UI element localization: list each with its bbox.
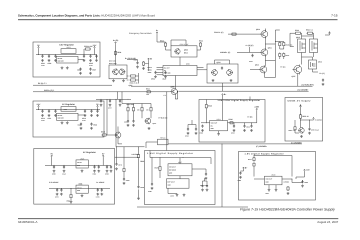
resistor R510 xyxy=(130,79,137,81)
capacitor C516 xyxy=(90,123,92,126)
junction J3 xyxy=(48,53,51,56)
svg-text:U503: U503 xyxy=(66,46,70,49)
junction J2 xyxy=(41,53,44,56)
capacitor C514 xyxy=(90,110,92,113)
svg-text:EP501 600: EP501 600 xyxy=(84,45,92,48)
wire B6 main xyxy=(201,100,257,123)
wire UNSWB+ lower rail xyxy=(168,143,302,145)
svg-text:R540: R540 xyxy=(295,29,299,32)
svg-text:C516: C516 xyxy=(93,123,97,126)
wire 9.3V feed vertical xyxy=(116,99,145,147)
regulator U510 box xyxy=(309,60,317,69)
ground R562 xyxy=(70,201,73,204)
resistor R513 xyxy=(164,42,166,47)
wire B4 links xyxy=(160,158,206,179)
svg-text:.01uF: .01uF xyxy=(62,173,66,176)
svg-text:UNSWB+ (C): UNSWB+ (C) xyxy=(220,51,231,54)
ground C520 xyxy=(136,65,139,68)
ground U506 xyxy=(81,194,84,197)
svg-text:C580: C580 xyxy=(148,190,152,193)
block 3.3V regulator xyxy=(33,42,100,77)
ground C550 xyxy=(308,132,311,135)
svg-text:R519: R519 xyxy=(101,130,105,133)
wire B3 row2 stub xyxy=(70,188,72,200)
junction J30 xyxy=(176,90,179,93)
capacitor C504 xyxy=(83,55,85,58)
wire B7 feed xyxy=(300,105,302,115)
svg-text:C542: C542 xyxy=(231,132,235,135)
capacitor C569 xyxy=(123,178,125,181)
block 1.8V digital supply regulator xyxy=(239,152,316,201)
junction J13 xyxy=(90,108,93,111)
svg-text:5V: 5V xyxy=(102,152,105,155)
svg-text:R513: R513 xyxy=(160,39,164,42)
ground Q501a xyxy=(112,79,115,82)
ground C586 xyxy=(301,184,304,187)
junction J25 xyxy=(96,187,99,190)
wire T1 base feed xyxy=(228,33,261,35)
svg-text:C510: C510 xyxy=(41,117,45,120)
ground C505 xyxy=(89,59,92,62)
capacitor C583 xyxy=(206,184,208,187)
svg-text:C585: C585 xyxy=(238,179,242,182)
svg-text:C503: C503 xyxy=(151,78,155,81)
svg-text:R575: R575 xyxy=(248,158,252,161)
thermistor RT500 box xyxy=(158,139,169,145)
transistor Q520 xyxy=(298,127,304,133)
capacitor C550 xyxy=(308,127,310,130)
header rule xyxy=(18,18,338,21)
comparator U500 body xyxy=(163,66,197,76)
transistor Q500 inside U501 box xyxy=(174,48,180,54)
resistor R537 xyxy=(279,53,281,58)
transistor Q507 xyxy=(144,118,150,125)
junction J32 xyxy=(109,98,112,101)
svg-text:August 24, 2007: August 24, 2007 xyxy=(317,220,338,224)
svg-text:3.3V: 3.3V xyxy=(93,44,97,47)
reference U506 xyxy=(76,185,88,193)
junction J15 xyxy=(50,164,53,167)
wire right collector bus xyxy=(275,30,283,78)
svg-text:VCC GND: VCC GND xyxy=(164,73,170,75)
resistor R546 xyxy=(229,122,234,124)
footer rule xyxy=(18,217,338,220)
junction J35 xyxy=(127,98,130,101)
svg-text:5V UNSW: 5V UNSW xyxy=(315,118,322,121)
ground C525 xyxy=(127,124,130,127)
comparator pair box Q501 xyxy=(109,65,127,79)
svg-text:C550 0.1uF: C550 0.1uF xyxy=(311,129,319,132)
regulator U503 body xyxy=(57,56,79,63)
junction J9 xyxy=(41,108,44,111)
junction J11 xyxy=(54,108,57,111)
junction J46 xyxy=(264,43,267,46)
ground Q514b xyxy=(230,79,233,82)
svg-text:C570: C570 xyxy=(55,196,59,199)
junction J49 xyxy=(299,119,302,122)
svg-text:(C) UNSWB+: (C) UNSWB+ xyxy=(256,145,267,148)
gate U501 box xyxy=(171,46,197,57)
svg-text:C502: C502 xyxy=(48,62,52,65)
capacitor C531 xyxy=(251,54,253,57)
wire sense drop xyxy=(148,60,150,71)
svg-text:IN OUT: IN OUT xyxy=(58,115,63,117)
svg-text:GND ADJ: GND ADJ xyxy=(58,60,64,62)
wire T3 base feed xyxy=(250,69,260,71)
junction J14 xyxy=(96,108,99,111)
capacitor C507 xyxy=(89,68,91,71)
wire R513 R514 stubs xyxy=(166,47,201,50)
capacitor C528 xyxy=(119,99,121,102)
ground C540 xyxy=(201,129,204,132)
wire B4 top bus xyxy=(150,151,211,165)
svg-text:6816552H01-A: 6816552H01-A xyxy=(18,220,38,224)
capacitor C576 xyxy=(115,163,117,166)
junction J39 xyxy=(205,121,208,124)
junction J24 xyxy=(70,187,73,190)
svg-text:47K: 47K xyxy=(137,110,140,112)
ground C560 xyxy=(53,170,56,173)
svg-text:E7 BLK 600: E7 BLK 600 xyxy=(159,117,168,120)
transistor Q511 xyxy=(260,48,268,56)
svg-text:C525: C525 xyxy=(124,121,128,123)
resistor R570 xyxy=(159,166,161,172)
wire bottom ground rail xyxy=(137,206,248,208)
resistor R576 xyxy=(253,162,255,167)
svg-text:B+: B+ xyxy=(245,166,247,169)
svg-text:1.55V: 1.55V xyxy=(170,195,174,198)
ground Q501b xyxy=(122,79,125,82)
wire B5 ic links xyxy=(254,179,292,183)
capacitor C522 xyxy=(164,71,166,74)
svg-text:GND: GND xyxy=(168,185,171,187)
ground C574 xyxy=(100,193,103,196)
junction J8 xyxy=(37,108,40,111)
wire Q505 emitter down xyxy=(175,91,177,99)
svg-text:C576: C576 xyxy=(118,163,122,166)
svg-text:F500 B+ (C): F500 B+ (C) xyxy=(214,31,224,34)
capacitor C573 xyxy=(97,188,99,191)
capacitor C508 xyxy=(79,68,81,71)
resistor R518 xyxy=(150,107,152,112)
svg-text:R511: R511 xyxy=(146,88,150,91)
regulator U504 body xyxy=(210,121,228,131)
wire FET tops xyxy=(290,33,314,46)
svg-text:(C) UNSWB+: (C) UNSWB+ xyxy=(291,141,302,144)
capacitor C571 xyxy=(60,188,62,191)
wire emergency rail xyxy=(96,98,131,100)
svg-text:C502: C502 xyxy=(134,59,138,61)
wire U510 links xyxy=(290,47,318,87)
svg-text:C586: C586 xyxy=(304,181,308,184)
resistor R514 xyxy=(199,42,201,47)
transistor Q515 (pass FET) xyxy=(298,39,306,53)
capacitor C526 xyxy=(132,120,134,123)
capacitor C564 xyxy=(93,165,95,168)
resistor R508 xyxy=(142,61,144,66)
capacitor C503 xyxy=(54,55,56,58)
svg-text:Emergency Sense Block: Emergency Sense Block xyxy=(129,32,153,35)
ground C521 xyxy=(154,75,157,78)
svg-text:VIN VOUT: VIN VOUT xyxy=(169,166,176,168)
svg-text:R570: R570 xyxy=(155,167,159,170)
junction J41 xyxy=(159,156,162,159)
svg-text:UNSW_5V Supply: UNSW_5V Supply xyxy=(288,99,312,102)
svg-text:U508: U508 xyxy=(271,174,275,177)
svg-text:R509 27.4K: R509 27.4K xyxy=(130,82,139,85)
ground C528 xyxy=(119,104,122,107)
capacitor C534 xyxy=(187,128,189,131)
ground C504 xyxy=(83,59,86,62)
svg-text:5V: 5V xyxy=(96,103,99,106)
ground C565 xyxy=(97,170,100,173)
svg-text:C540: C540 xyxy=(200,132,204,135)
capacitor C533 xyxy=(221,67,223,70)
svg-text:R545: R545 xyxy=(208,105,212,108)
supply arrow B+ B5 xyxy=(243,167,245,169)
junction J52 xyxy=(137,145,140,148)
capacitor C521 xyxy=(154,71,156,74)
junction J23 xyxy=(60,187,63,190)
wire resistor pair links xyxy=(280,47,284,59)
wire R509 column xyxy=(127,73,139,84)
svg-text:LP2986: LP2986 xyxy=(284,181,289,184)
svg-text:5V Regulator: 5V Regulator xyxy=(83,151,96,154)
ground C581 xyxy=(205,177,208,180)
svg-text:U510: U510 xyxy=(318,60,322,63)
resistor R516 xyxy=(132,107,134,112)
ground Q507 xyxy=(148,127,151,130)
resistor R562 xyxy=(70,194,72,199)
transistor Q512 xyxy=(259,65,267,73)
wire Q510 emitter chain xyxy=(266,29,276,49)
supply arrow B+ into B6 xyxy=(222,94,224,96)
ground C580 xyxy=(151,187,154,190)
capacitor C530 xyxy=(322,79,324,82)
resistor R511 on rail xyxy=(146,91,151,93)
resistor R550 xyxy=(299,114,301,119)
svg-text:GND: GND xyxy=(77,165,80,167)
svg-text:Q514: Q514 xyxy=(217,61,221,64)
svg-text:B+ (C): B+ (C) xyxy=(281,66,286,69)
resistor R575 xyxy=(253,157,255,162)
capacitor C505 xyxy=(89,55,91,58)
wire B6 out drop xyxy=(256,111,258,123)
wire B2 right drop xyxy=(97,108,99,110)
svg-text:Figure 7-15 HUD4022B/HUE4043A: Figure 7-15 HUD4022B/HUE4043A Controller… xyxy=(240,208,335,212)
transistor Q506 xyxy=(114,132,121,139)
svg-text:Q510: Q510 xyxy=(256,28,260,31)
ground C530 xyxy=(322,83,325,86)
junction J27 xyxy=(116,90,119,93)
svg-text:EMGY: EMGY xyxy=(148,66,152,69)
supply arrow 3.3V output B1 xyxy=(94,46,96,48)
resistor R545 xyxy=(205,104,207,109)
svg-text:B+ (B): B+ (B) xyxy=(248,116,253,119)
ground U507b 2 xyxy=(183,194,186,197)
wire chain col2 xyxy=(138,147,140,197)
junction J50 xyxy=(308,119,311,122)
transistor Q514a xyxy=(211,69,217,76)
regulator U507 body xyxy=(168,164,192,176)
svg-text:A+ (B): A+ (B) xyxy=(113,39,119,42)
resistor R538 xyxy=(283,53,285,58)
block 5V regulator (bottom left) xyxy=(34,149,115,205)
svg-text:C573: C573 xyxy=(96,196,100,199)
ground C582 xyxy=(201,188,204,191)
svg-text:VIN VOUT: VIN VOUT xyxy=(266,179,273,181)
junction J21 xyxy=(106,164,109,167)
wire stub B6 a xyxy=(222,96,224,100)
fuse F500 xyxy=(231,33,237,35)
arrow B+ feed B7 xyxy=(300,105,302,107)
junction J6 xyxy=(89,53,92,56)
ground C526 xyxy=(132,124,135,127)
svg-text:.01uF: .01uF xyxy=(41,65,45,67)
wire mid vertical to B4 xyxy=(166,92,168,151)
wire B1 right drop xyxy=(84,49,95,55)
capacitor C561 xyxy=(63,165,65,168)
capacitor C545 xyxy=(250,125,252,128)
svg-text:0.1uF: 0.1uF xyxy=(89,65,93,67)
svg-text:C 1: C 1 xyxy=(164,94,167,97)
svg-text:R537: R537 xyxy=(286,54,290,57)
block 5V switched regulator xyxy=(33,101,104,137)
svg-text:(C) 5V/5A RTN: (C) 5V/5A RTN xyxy=(302,83,315,86)
svg-text:R541 0.1: R541 0.1 xyxy=(306,29,313,32)
ground C506 xyxy=(95,59,98,62)
ground C573 xyxy=(96,193,99,196)
transistor Q514b xyxy=(227,69,233,76)
svg-text:2.85V: 2.85V xyxy=(254,106,259,109)
svg-text:A+ (B) (C): A+ (B) (C) xyxy=(246,44,254,47)
svg-text:(C) UNSWB+: (C) UNSWB+ xyxy=(298,89,309,92)
junction J12 xyxy=(84,108,87,111)
svg-text:GND ADJ: GND ADJ xyxy=(58,118,64,120)
svg-text:R577: R577 xyxy=(266,192,270,195)
svg-text:U500: U500 xyxy=(186,62,190,65)
block 2.8/5V digital supply regulator xyxy=(199,100,265,143)
ground C544 xyxy=(243,129,246,132)
resistor R536 xyxy=(283,42,285,47)
svg-text:GND: GND xyxy=(169,172,172,174)
transistor Q501b xyxy=(119,69,125,76)
ground C585 xyxy=(239,176,242,179)
resistor EP501 xyxy=(85,48,92,50)
supply arrow A+ top mid xyxy=(156,32,158,34)
supply arrow 9.3V input B2 xyxy=(38,105,40,107)
junction J18 xyxy=(93,164,96,167)
transistor Q510 xyxy=(260,30,268,38)
current mirror box Q514 xyxy=(207,64,238,83)
transistor Q505 xyxy=(170,88,177,96)
svg-text:Q517: Q517 xyxy=(292,75,296,78)
wire B3 bus row1 xyxy=(45,157,111,165)
ground C517 xyxy=(80,127,83,130)
wire SW B+ rail xyxy=(33,91,170,93)
svg-text:C500 0.1uF: C500 0.1uF xyxy=(180,43,189,46)
capacitor C560 xyxy=(53,165,55,168)
junction J47 xyxy=(264,59,267,62)
junction J51 xyxy=(115,145,118,148)
junction J1 xyxy=(37,53,40,56)
svg-text:1.55V Digital Supply Regulator: 1.55V Digital Supply Regulator xyxy=(147,152,194,155)
junction J43 xyxy=(221,143,224,146)
ground R508 xyxy=(142,67,145,70)
ground C534 xyxy=(187,132,190,135)
wire B2 bus xyxy=(36,108,100,110)
reference U505 xyxy=(76,160,88,168)
ground C576 xyxy=(115,167,118,170)
svg-text:Q512: Q512 xyxy=(255,64,259,67)
junction J44 xyxy=(253,154,256,157)
wire T2 base feed xyxy=(237,47,261,53)
capacitor C580 xyxy=(151,183,153,186)
wire Q512 emitter down xyxy=(265,73,276,77)
supply arrow 1.8V out xyxy=(304,169,306,171)
ground C510 xyxy=(41,114,44,117)
svg-text:R546: R546 xyxy=(229,118,233,121)
wire Q520 out xyxy=(295,119,314,133)
wire B5 top bus xyxy=(241,156,293,177)
ground U502 tab xyxy=(61,121,64,124)
transistor Q516 (pass FET) xyxy=(310,39,318,53)
ground C526b xyxy=(100,104,103,107)
ground C527 xyxy=(109,104,112,107)
resistor R551 xyxy=(294,126,296,131)
svg-text:C505: C505 xyxy=(89,62,93,65)
wire mid vertical bus A xyxy=(106,99,108,135)
ground C535 xyxy=(195,132,198,135)
junction J26 xyxy=(100,187,103,190)
ground C508 xyxy=(79,72,82,75)
supply arrow 5V input B1 xyxy=(38,46,40,48)
ground R578 xyxy=(287,192,290,195)
wire RT500 left xyxy=(146,142,158,148)
wire 5V(A) rail xyxy=(33,84,112,86)
ground C569 xyxy=(123,182,126,185)
ground C571 xyxy=(60,193,63,196)
wire stub B6 b xyxy=(249,97,251,100)
wire Q506 links xyxy=(107,127,122,144)
svg-text:Q515: Q515 xyxy=(296,36,300,39)
resistor R517 xyxy=(141,107,143,112)
ground U508 a xyxy=(268,189,271,192)
svg-text:C527: C527 xyxy=(108,106,112,109)
svg-text:C569: C569 xyxy=(126,179,130,182)
ground U502 xyxy=(66,121,69,124)
ground C583 xyxy=(206,188,209,191)
svg-text:C560: C560 xyxy=(52,173,56,176)
svg-text:R551 4.7K: R551 4.7K xyxy=(289,129,297,132)
capacitor C520 xyxy=(136,61,138,64)
junction J31 xyxy=(100,98,103,101)
ground C511 xyxy=(48,114,51,117)
svg-text:R506: R506 xyxy=(117,51,121,54)
capacitor C570 xyxy=(56,188,58,191)
svg-text:R535 10K: R535 10K xyxy=(286,44,294,47)
wire base link xyxy=(127,60,138,62)
wire A+ top mid drop xyxy=(157,34,166,42)
svg-text:U504: U504 xyxy=(217,118,221,121)
svg-text:Q500: Q500 xyxy=(184,49,188,52)
svg-text:100: 100 xyxy=(146,93,149,96)
ground C515 xyxy=(96,114,99,117)
capacitor C501 xyxy=(41,55,43,58)
ground C513 xyxy=(84,114,87,117)
wire A+ vertical xyxy=(115,44,117,65)
svg-text:IN OUT: IN OUT xyxy=(58,58,63,60)
